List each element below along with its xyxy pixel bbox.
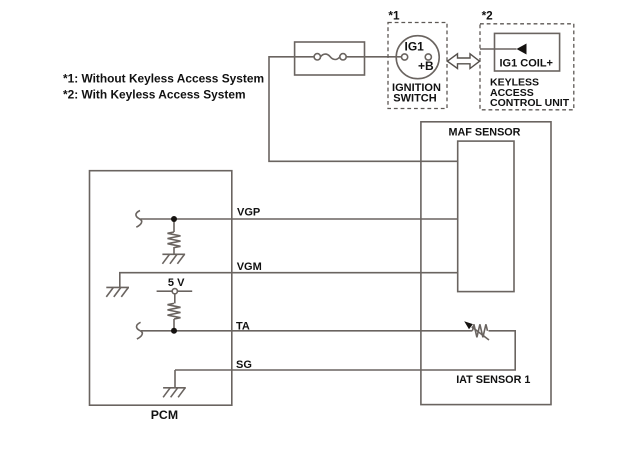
svg-text:IG1: IG1 <box>405 40 425 54</box>
svg-text:CONTROL UNIT: CONTROL UNIT <box>490 97 570 109</box>
svg-text:IAT SENSOR 1: IAT SENSOR 1 <box>456 374 530 386</box>
svg-text:SG: SG <box>236 359 252 371</box>
svg-text:*1: Without Keyless Access Sys: *1: Without Keyless Access System <box>63 71 264 85</box>
svg-text:*2: *2 <box>482 9 494 23</box>
svg-text:VGP: VGP <box>237 207 260 219</box>
svg-text:*2: With Keyless Access System: *2: With Keyless Access System <box>63 87 246 101</box>
svg-text:*1: *1 <box>388 9 400 23</box>
svg-text:VGM: VGM <box>237 261 262 273</box>
svg-text:TA: TA <box>236 321 250 333</box>
svg-text:SWITCH: SWITCH <box>393 92 436 104</box>
svg-text:+B: +B <box>418 59 434 73</box>
svg-text:PCM: PCM <box>151 408 178 422</box>
svg-text:IG1 COIL+: IG1 COIL+ <box>500 58 554 70</box>
svg-text:5 V: 5 V <box>168 277 185 289</box>
svg-text:MAF SENSOR: MAF SENSOR <box>449 127 521 139</box>
